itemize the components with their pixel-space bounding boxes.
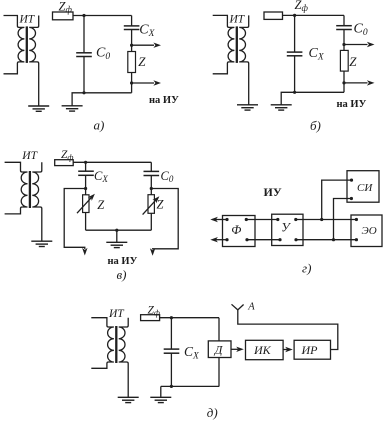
svg-text:ИК: ИК <box>253 343 272 357</box>
svg-text:C0: C0 <box>96 46 110 62</box>
svg-text:А: А <box>247 301 255 312</box>
svg-text:ИТ: ИТ <box>108 308 125 320</box>
svg-text:д): д) <box>207 405 218 420</box>
svg-text:ИТ: ИТ <box>19 14 36 26</box>
svg-text:б): б) <box>310 118 321 133</box>
svg-text:ИТ: ИТ <box>21 150 38 162</box>
svg-text:а): а) <box>94 117 105 132</box>
svg-text:ИР: ИР <box>301 343 319 357</box>
svg-text:Zф: Zф <box>148 305 160 318</box>
svg-text:СИ: СИ <box>357 182 373 194</box>
svg-text:г): г) <box>302 261 311 276</box>
svg-text:CX: CX <box>94 169 108 184</box>
svg-text:на ИУ: на ИУ <box>108 256 138 267</box>
svg-text:в): в) <box>117 267 127 282</box>
svg-text:Zф: Zф <box>59 0 73 15</box>
svg-text:C0: C0 <box>354 22 368 38</box>
svg-text:Zф: Zф <box>295 0 309 13</box>
svg-text:Д: Д <box>214 343 224 357</box>
svg-text:Z: Z <box>138 54 146 69</box>
svg-text:CX: CX <box>184 344 200 361</box>
svg-text:Z: Z <box>97 198 105 212</box>
svg-text:ИТ: ИТ <box>229 14 246 26</box>
svg-text:на ИУ: на ИУ <box>337 99 367 110</box>
svg-text:ИУ: ИУ <box>264 185 282 199</box>
svg-text:Zф: Zф <box>61 149 73 162</box>
svg-text:Z: Z <box>349 54 357 69</box>
svg-text:C0: C0 <box>161 169 174 184</box>
svg-text:ЭО: ЭО <box>362 225 377 237</box>
svg-text:CX: CX <box>139 22 155 38</box>
svg-text:CX: CX <box>309 46 325 62</box>
svg-text:У: У <box>281 221 291 235</box>
svg-text:на ИУ: на ИУ <box>149 95 179 106</box>
svg-text:Ф: Ф <box>231 223 241 237</box>
svg-text:Z: Z <box>157 198 165 212</box>
